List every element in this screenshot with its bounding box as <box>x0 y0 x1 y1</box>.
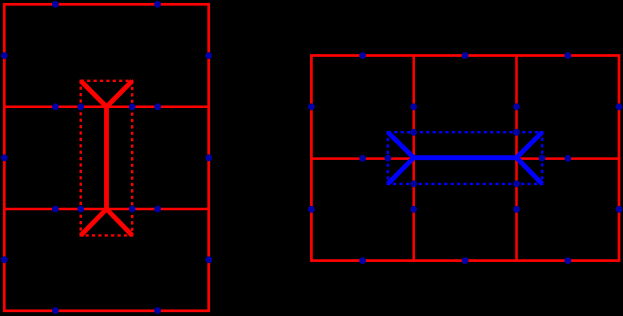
node bottom edge col3 <box>564 257 571 264</box>
node right edge row2 <box>205 154 212 161</box>
node right edge row1 <box>616 103 623 110</box>
left thick red tree <box>81 81 133 236</box>
node bottom edge left <box>52 307 59 314</box>
node left edge row2 <box>1 154 8 161</box>
node line1 dotted-right crossing <box>129 103 136 110</box>
node left edge row1 <box>308 103 315 110</box>
node bottom edge col2 <box>462 257 469 264</box>
node vline2 upper mid <box>513 103 520 110</box>
left grid horizontal line 1 <box>3 106 210 109</box>
left outer rectangle <box>4 4 208 311</box>
node right edge row1 <box>205 52 212 59</box>
node right edge row3 <box>205 256 212 263</box>
node hline left mid <box>359 155 366 162</box>
node vline2 dotted-bottom crossing <box>513 180 520 187</box>
left dotted bounding rectangle <box>81 81 133 236</box>
node bottom edge right <box>154 307 161 314</box>
node top edge right <box>154 1 161 8</box>
node left edge row2 <box>308 206 315 213</box>
node top edge col3 <box>564 52 571 59</box>
node bottom edge col1 <box>359 257 366 264</box>
node vline1 dotted-bottom crossing <box>410 180 417 187</box>
left grid horizontal line 2 <box>3 208 210 211</box>
right thick blue tree <box>388 132 542 184</box>
right node dots <box>308 52 622 264</box>
right outer rectangle <box>311 56 619 261</box>
node line2 dotted-right crossing <box>129 206 136 213</box>
node vline2 dotted-top crossing <box>513 129 520 136</box>
node vline1 dotted-top crossing <box>410 129 417 136</box>
node hline dotted-left crossing <box>385 155 392 162</box>
right grid vertical line 2 <box>515 54 518 262</box>
node left edge row1 <box>1 52 8 59</box>
right grid vertical line 1 <box>412 54 415 262</box>
node right edge row2 <box>616 206 623 213</box>
node hline dotted-right crossing <box>539 155 546 162</box>
node line2 three-quarter <box>154 206 161 213</box>
node line2 quarter <box>52 206 59 213</box>
node top edge left <box>52 1 59 8</box>
node line1 dotted-left crossing <box>77 103 84 110</box>
node vline2 lower mid <box>513 206 520 213</box>
node vline1 lower mid <box>410 206 417 213</box>
left node dots <box>1 1 212 314</box>
node vline1 upper mid <box>410 103 417 110</box>
node left edge row3 <box>1 256 8 263</box>
node top edge col1 <box>359 52 366 59</box>
right dotted bounding rectangle (blue) <box>388 132 542 184</box>
node line1 three-quarter <box>154 103 161 110</box>
node line1 quarter <box>52 103 59 110</box>
right grid horizontal middle line <box>310 157 620 160</box>
node hline right mid <box>564 155 571 162</box>
node line2 dotted-left crossing <box>77 206 84 213</box>
node top edge col2 <box>462 52 469 59</box>
